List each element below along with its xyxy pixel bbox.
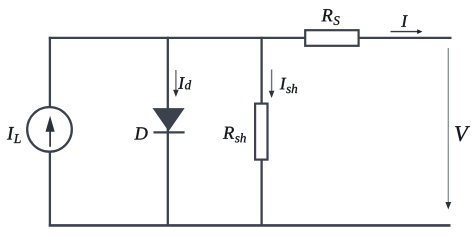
wire left branch: [49, 37, 51, 227]
wire shunt branch: [260, 37, 262, 227]
current arrow Ish: [269, 70, 275, 99]
current arrow I: [391, 29, 423, 34]
wire bottom rail: [49, 224, 451, 227]
voltage arrow V: [445, 48, 451, 210]
label R_S: [321, 9, 339, 25]
resistor Rsh: [255, 104, 267, 160]
label R_sh: [223, 127, 246, 143]
current arrow Id: [173, 70, 179, 97]
label I: [401, 15, 408, 26]
label I_sh: [280, 78, 297, 93]
label D: [134, 127, 147, 139]
resistor RS: [305, 30, 358, 46]
wire top rail: [49, 37, 452, 39]
wire diode branch: [167, 37, 169, 227]
diode D: [154, 109, 185, 133]
label I_L: [7, 127, 21, 143]
current source IL: [27, 107, 72, 152]
label V: [455, 126, 470, 141]
label I_d: [178, 77, 191, 89]
